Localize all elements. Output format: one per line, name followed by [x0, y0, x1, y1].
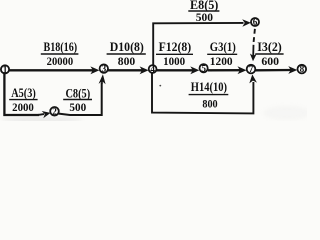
svg-text:500: 500 [69, 100, 86, 114]
node 3 [100, 64, 108, 74]
speck [159, 85, 161, 87]
node 1 [1, 65, 9, 75]
svg-text:G3(1): G3(1) [210, 40, 236, 54]
svg-text:2000: 2000 [12, 100, 34, 114]
label H14(10)/800 [189, 80, 229, 110]
svg-text:600: 600 [261, 54, 279, 68]
node 4 [149, 64, 157, 74]
wire I3: node7 to node8 [255, 66, 297, 74]
node 6 [251, 17, 259, 27]
label B18(16)/20000 [41, 40, 79, 68]
node 8 [298, 64, 307, 74]
wire A5: node1 down and right to node2 [4, 73, 50, 118]
node 2 [50, 106, 59, 116]
wire H14: node4 down, right and up to node7 [152, 73, 257, 113]
svg-text:A5(3): A5(3) [11, 86, 36, 100]
label I3(2)/600 [255, 40, 283, 68]
dummy activity: dashed arrow node6 to node7 [250, 29, 257, 61]
svg-text:8: 8 [300, 64, 305, 74]
wire F12: node4 to node5 [157, 66, 200, 74]
scan smudge bottom-right [263, 106, 311, 120]
label D10(8)/800 [107, 40, 146, 68]
svg-text:800: 800 [202, 97, 217, 111]
label A5(3)/2000 [9, 86, 37, 114]
svg-text:800: 800 [118, 54, 135, 68]
svg-text:B18(16): B18(16) [44, 40, 78, 54]
svg-text:3: 3 [102, 64, 107, 74]
svg-text:5: 5 [201, 63, 206, 73]
svg-text:1000: 1000 [163, 54, 185, 68]
svg-text:1200: 1200 [210, 54, 233, 68]
node 7 [247, 64, 256, 74]
label C8(5)/500 [63, 86, 92, 114]
svg-text:H14(10): H14(10) [191, 80, 227, 94]
wire C8: node2 right and up to node3 [59, 74, 106, 115]
wire G3: node5 to node7 [208, 66, 247, 74]
svg-text:4: 4 [150, 64, 155, 74]
svg-text:D10(8): D10(8) [110, 40, 144, 54]
label E8(5)/500 [188, 0, 219, 24]
svg-text:2: 2 [52, 106, 57, 116]
svg-text:F12(8): F12(8) [159, 40, 192, 54]
svg-text:I3(2): I3(2) [257, 40, 282, 54]
svg-text:C8(5): C8(5) [65, 86, 90, 100]
svg-text:500: 500 [196, 10, 213, 24]
wire B18: node1 to node3 [9, 66, 99, 74]
label F12(8)/1000 [156, 40, 193, 68]
scan smudge bottom-left [2, 117, 82, 122]
node 5 [200, 63, 208, 73]
svg-text:20000: 20000 [47, 54, 74, 68]
wire E8: node4 up and right to node6 [153, 19, 251, 65]
svg-text:1: 1 [3, 65, 8, 75]
wire D10: node3 to node4 [108, 66, 149, 74]
label G3(1)/1200 [207, 40, 237, 68]
svg-text:6: 6 [253, 17, 258, 27]
svg-text:7: 7 [249, 64, 254, 74]
